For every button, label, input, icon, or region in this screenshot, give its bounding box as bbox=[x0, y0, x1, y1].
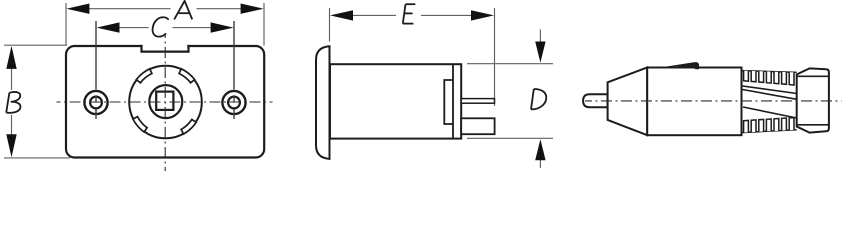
dim D arrow top bbox=[539, 30, 541, 44]
bayonet slot 221deg bbox=[133, 117, 147, 132]
top ribs bbox=[744, 71, 749, 82]
socket flange bbox=[316, 46, 330, 159]
dim E arrow left bbox=[330, 10, 353, 20]
bayonet slot 51deg bbox=[179, 69, 195, 83]
center square terminal bbox=[156, 92, 173, 110]
inner step bbox=[444, 80, 453, 124]
dim E line bbox=[352, 14, 396, 16]
letter B bbox=[6, 92, 20, 113]
plug cone bbox=[608, 68, 648, 136]
upper terminal blade bbox=[461, 99, 494, 104]
end cap bbox=[797, 68, 829, 132]
dim B arrow bottom bbox=[6, 134, 16, 157]
clip lever bbox=[659, 62, 700, 69]
dim B arrow top bbox=[6, 46, 16, 69]
hole centerline right bbox=[233, 21, 235, 119]
plate notch bbox=[143, 43, 188, 50]
plug tip bbox=[583, 94, 608, 107]
dim A extension line left bbox=[65, 3, 67, 46]
letter A bbox=[174, 1, 192, 20]
dim C arrow left bbox=[97, 22, 120, 32]
socket inner circle bbox=[149, 85, 182, 118]
bayonet slot 313deg bbox=[181, 119, 196, 134]
dim B extension line bottom bbox=[4, 157, 70, 159]
body/cap joint line bbox=[452, 64, 454, 138]
dim A arrow left bbox=[66, 4, 89, 14]
letter E bbox=[403, 4, 416, 23]
end cap inner line bottom bbox=[797, 124, 829, 126]
dim E arrow right bbox=[471, 10, 494, 20]
plug body bbox=[647, 68, 741, 136]
dim C line bbox=[117, 27, 149, 29]
socket outer circle bbox=[129, 66, 202, 139]
letter D bbox=[531, 89, 546, 109]
lower terminal bbox=[461, 118, 494, 134]
dim E extension right bbox=[494, 8, 496, 106]
socket body bbox=[330, 64, 461, 138]
dim A extension line right bbox=[263, 3, 265, 46]
dim A arrow right bbox=[241, 4, 264, 14]
dim D arrow bottom bbox=[539, 159, 541, 168]
top rib rail bbox=[742, 71, 797, 73]
dim A line bbox=[88, 8, 171, 10]
dim D extension bottom bbox=[467, 137, 553, 139]
bayonet slot 129deg bbox=[136, 69, 152, 83]
plug centerline bbox=[585, 100, 842, 102]
dim C arrow right bbox=[211, 22, 234, 32]
mounting hole right bbox=[222, 91, 245, 114]
spring lines bottom bbox=[743, 107, 797, 118]
hole centerline left bbox=[95, 21, 97, 119]
dim B line bbox=[11, 66, 13, 90]
end cap inner line top bbox=[797, 75, 829, 77]
bottom ribs bbox=[744, 120, 749, 132]
spring lines top bbox=[743, 86, 797, 94]
vertical centerline bbox=[164, 33, 166, 171]
dim E extension left bbox=[329, 8, 331, 42]
bottom rib rail bbox=[742, 130, 797, 133]
dim D extension top bbox=[467, 63, 553, 65]
plate outline bbox=[66, 46, 264, 158]
horizontal centerline bbox=[57, 101, 273, 103]
letter C bbox=[153, 17, 169, 36]
mounting hole left bbox=[84, 91, 107, 114]
dim B extension line top bbox=[4, 44, 67, 46]
